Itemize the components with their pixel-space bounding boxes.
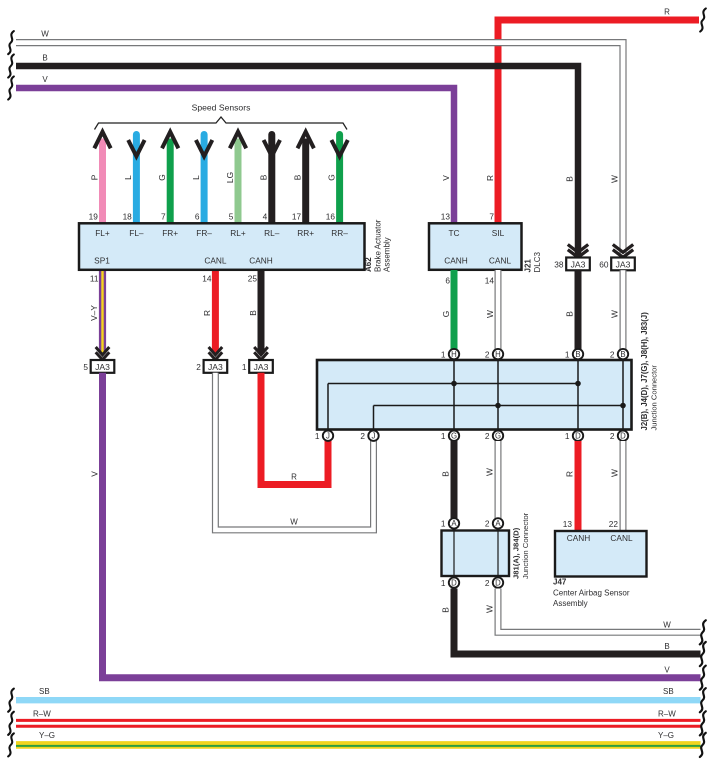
svg-text:R: R: [202, 310, 212, 316]
svg-text:SP1: SP1: [94, 256, 110, 266]
svg-text:D: D: [620, 432, 626, 441]
svg-text:G: G: [451, 432, 457, 441]
svg-text:V: V: [664, 666, 670, 675]
svg-text:1: 1: [441, 578, 446, 588]
svg-text:2: 2: [485, 578, 490, 588]
svg-text:B: B: [42, 53, 47, 62]
svg-text:G: G: [157, 174, 167, 181]
svg-text:SIL: SIL: [492, 228, 505, 238]
svg-text:Center Airbag Sensor: Center Airbag Sensor: [553, 589, 630, 598]
svg-text:2: 2: [610, 431, 615, 441]
svg-text:2: 2: [610, 349, 615, 359]
svg-text:6: 6: [445, 276, 450, 286]
svg-text:14: 14: [202, 274, 212, 284]
svg-text:60: 60: [599, 259, 609, 269]
svg-text:FR–: FR–: [196, 228, 212, 238]
svg-text:2: 2: [485, 431, 490, 441]
svg-text:22: 22: [609, 519, 619, 529]
svg-text:V: V: [89, 471, 99, 477]
svg-text:Y–G: Y–G: [39, 731, 55, 740]
svg-text:A: A: [451, 519, 457, 528]
svg-text:B: B: [565, 311, 575, 317]
svg-text:13: 13: [563, 519, 573, 529]
svg-text:6: 6: [195, 212, 200, 222]
svg-text:RL+: RL+: [230, 228, 246, 238]
svg-text:13: 13: [441, 212, 451, 222]
svg-text:LG: LG: [225, 172, 235, 183]
svg-text:R–W: R–W: [658, 710, 676, 719]
svg-text:RR–: RR–: [331, 228, 348, 238]
svg-text:B: B: [248, 310, 258, 316]
svg-text:W: W: [41, 30, 49, 39]
svg-text:Junction Connector: Junction Connector: [521, 512, 530, 579]
svg-text:G: G: [495, 432, 501, 441]
svg-text:CANL: CANL: [610, 533, 633, 543]
svg-text:G: G: [441, 311, 451, 318]
svg-text:19: 19: [89, 212, 99, 222]
svg-text:J2(B), J4(D), J7(G), J8(H), J8: J2(B), J4(D), J7(G), J8(H), J83(J): [640, 312, 649, 431]
svg-text:25: 25: [248, 274, 258, 284]
svg-text:JA3: JA3: [616, 259, 631, 269]
svg-text:V: V: [441, 175, 451, 181]
svg-text:2: 2: [485, 349, 490, 359]
svg-text:Y–G: Y–G: [658, 731, 674, 740]
svg-text:W: W: [610, 310, 620, 318]
svg-text:1: 1: [565, 431, 570, 441]
svg-text:1: 1: [441, 431, 446, 441]
svg-text:W: W: [485, 468, 495, 476]
svg-text:JA3: JA3: [571, 259, 586, 269]
svg-text:1: 1: [441, 519, 446, 529]
svg-text:Assembly: Assembly: [553, 599, 588, 608]
svg-text:W: W: [610, 175, 620, 183]
svg-text:R: R: [291, 473, 297, 482]
svg-text:W: W: [663, 621, 671, 630]
svg-text:W: W: [290, 518, 298, 527]
svg-text:FL–: FL–: [129, 228, 144, 238]
svg-text:B: B: [575, 350, 580, 359]
svg-text:JA3: JA3: [208, 362, 223, 372]
svg-text:RR+: RR+: [297, 228, 314, 238]
svg-text:CANH: CANH: [249, 256, 273, 266]
svg-text:SB: SB: [39, 687, 50, 696]
svg-text:CANL: CANL: [204, 256, 227, 266]
svg-text:CANH: CANH: [444, 256, 468, 266]
svg-text:14: 14: [485, 276, 495, 286]
svg-text:2: 2: [196, 362, 201, 372]
svg-text:RL–: RL–: [264, 228, 280, 238]
svg-text:1: 1: [315, 431, 320, 441]
svg-text:V–Y: V–Y: [89, 305, 99, 321]
svg-text:R: R: [485, 175, 495, 181]
svg-text:17: 17: [292, 212, 302, 222]
svg-text:R: R: [564, 471, 574, 477]
svg-text:18: 18: [123, 212, 133, 222]
svg-text:L: L: [123, 175, 133, 180]
svg-text:H: H: [495, 350, 501, 359]
svg-text:JA3: JA3: [254, 362, 269, 372]
svg-text:R: R: [664, 8, 670, 17]
svg-text:J47: J47: [553, 578, 567, 587]
svg-text:SB: SB: [663, 687, 674, 696]
svg-text:B: B: [440, 471, 450, 477]
svg-text:Assembly: Assembly: [383, 237, 392, 272]
svg-text:Junction Connector: Junction Connector: [650, 365, 659, 431]
svg-text:CANL: CANL: [489, 256, 512, 266]
svg-text:FL+: FL+: [95, 228, 110, 238]
svg-text:D: D: [575, 432, 581, 441]
svg-text:Speed Sensors: Speed Sensors: [192, 103, 251, 113]
svg-text:H: H: [451, 350, 457, 359]
svg-text:CANH: CANH: [567, 533, 591, 543]
svg-text:4: 4: [263, 212, 268, 222]
svg-text:V: V: [42, 75, 48, 84]
svg-text:J: J: [372, 432, 376, 441]
svg-text:7: 7: [161, 212, 166, 222]
svg-text:L: L: [191, 175, 201, 180]
svg-text:JA3: JA3: [95, 362, 110, 372]
svg-text:B: B: [259, 174, 269, 180]
svg-text:D: D: [451, 578, 457, 587]
svg-text:B: B: [620, 350, 625, 359]
svg-text:16: 16: [326, 212, 336, 222]
svg-text:2: 2: [485, 519, 490, 529]
svg-text:1: 1: [242, 362, 247, 372]
svg-text:D: D: [495, 578, 501, 587]
svg-text:A: A: [495, 519, 501, 528]
svg-text:R–W: R–W: [33, 710, 51, 719]
svg-text:J81(A), J84(D): J81(A), J84(D): [512, 527, 521, 579]
svg-text:J21: J21: [524, 259, 533, 273]
svg-text:TC: TC: [448, 228, 459, 238]
svg-text:Brake Actuator: Brake Actuator: [374, 219, 383, 272]
svg-text:2: 2: [360, 431, 365, 441]
svg-text:J: J: [326, 432, 330, 441]
svg-text:7: 7: [489, 212, 494, 222]
svg-text:W: W: [485, 310, 495, 318]
svg-text:5: 5: [83, 362, 88, 372]
svg-text:A62: A62: [364, 257, 373, 272]
svg-text:1: 1: [565, 349, 570, 359]
svg-text:W: W: [485, 605, 495, 613]
svg-text:B: B: [293, 174, 303, 180]
svg-text:11: 11: [90, 274, 99, 284]
svg-text:B: B: [664, 642, 669, 651]
svg-text:P: P: [89, 174, 99, 180]
svg-text:FR+: FR+: [162, 228, 178, 238]
svg-text:DLC3: DLC3: [533, 251, 542, 272]
svg-text:G: G: [326, 174, 336, 181]
svg-text:W: W: [610, 469, 620, 477]
svg-text:B: B: [565, 176, 575, 182]
svg-text:38: 38: [554, 259, 564, 269]
svg-text:5: 5: [229, 212, 234, 222]
svg-text:1: 1: [441, 349, 446, 359]
svg-text:B: B: [440, 607, 450, 613]
